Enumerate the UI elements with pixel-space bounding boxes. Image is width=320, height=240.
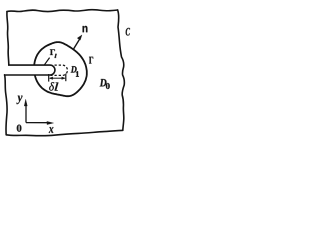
label D1 (inner region)	[71, 66, 77, 72]
dashed contour (extended crack tip, advance delta-l)	[51, 65, 68, 75]
label D0 (outer region)	[100, 79, 107, 86]
y axis	[25, 103, 27, 123]
label x	[49, 127, 54, 133]
label C (outer boundary)	[126, 28, 130, 36]
outer boundary C : bottom edge	[6, 130, 123, 135]
x axis	[26, 122, 50, 124]
dimension tick left	[48, 74, 50, 82]
outer boundary C : right edge	[118, 10, 125, 130]
outer boundary C : left edge lower (below crack mouth)	[5, 75, 8, 135]
label n	[83, 26, 88, 32]
crack (slot from left edge, white interior masks circle arc)	[5, 65, 55, 75]
label 0 (origin)	[17, 125, 22, 132]
label delta-l	[49, 82, 54, 90]
dimension tick right	[65, 74, 67, 82]
leader line for Gamma_l	[44, 58, 49, 65]
contour Gamma : hand-drawn circle boundary of D1	[34, 42, 87, 96]
label y	[17, 96, 23, 105]
outer boundary C : left edge upper (above crack mouth)	[7, 12, 9, 66]
outer boundary C : wavy hand-drawn square, top edge	[7, 10, 118, 12]
label Gamma_l	[50, 49, 55, 55]
normal vector n : arrow	[73, 39, 80, 50]
dimension double arrow	[50, 77, 65, 79]
label Gamma (circle contour)	[89, 57, 93, 64]
